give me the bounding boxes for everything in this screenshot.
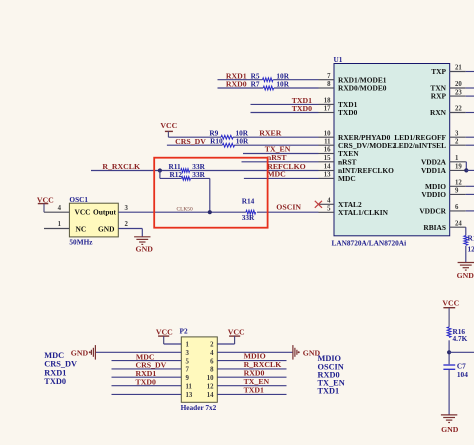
net label RXD1 [226, 71, 247, 80]
svg-text:CRS_DV: CRS_DV [44, 360, 77, 369]
svg-text:16: 16 [324, 147, 331, 154]
net label TX_EN [265, 145, 291, 154]
svg-text:6: 6 [210, 358, 214, 365]
svg-text:LAN8720A/LAN8720Ai: LAN8720A/LAN8720Ai [332, 239, 407, 248]
U1 right pin stubs [450, 72, 466, 228]
svg-text:TXD1: TXD1 [244, 385, 264, 394]
U1 right pin numbers [455, 65, 462, 228]
svg-text:7: 7 [327, 73, 331, 80]
wire R16 to junction [448, 340, 450, 364]
svg-text:1: 1 [186, 342, 190, 349]
net label RXD1 (header) [136, 369, 157, 378]
resistor R12 [170, 170, 206, 180]
svg-text:CRS_DV: CRS_DV [175, 137, 206, 146]
wire nRST to pin 15 [242, 161, 319, 163]
U1 right pin names [394, 67, 447, 232]
connector P2 body (Header 7x2) [181, 337, 217, 402]
svg-text:RXD0: RXD0 [226, 80, 247, 89]
svg-text:3: 3 [125, 205, 129, 212]
svg-text:nRST: nRST [267, 153, 287, 162]
net label nRST [267, 153, 287, 162]
junction node MDIO pullup [447, 350, 451, 354]
ground port (header left) [71, 345, 96, 360]
OSC1 pin 2 wire to GND [118, 229, 142, 237]
wire TX_EN to pin 16 [243, 153, 319, 155]
power port VCC (left of OSC1) [37, 195, 54, 212]
wire pin 20 TXN tail [466, 87, 474, 89]
wire pin 2 LED2 tail [466, 144, 474, 146]
wire pin 23 RXP tail [466, 95, 474, 97]
wire VDD1A tail [466, 169, 474, 171]
wire TX_EN to P2 pin 12 [217, 385, 286, 387]
power port VCC (bottom right) [442, 299, 459, 327]
svg-text:VCC: VCC [160, 121, 177, 130]
svg-text:TXD0: TXD0 [44, 377, 66, 386]
svg-text:1: 1 [58, 221, 62, 228]
svg-text:33R: 33R [192, 170, 205, 179]
OSC1 pin 4 stub [44, 211, 69, 213]
wire C7 to GND [448, 369, 450, 414]
svg-text:U1: U1 [334, 55, 343, 64]
svg-text:18: 18 [324, 98, 331, 105]
svg-text:VDDIO: VDDIO [421, 190, 446, 199]
net label MDIO (header) [244, 351, 266, 360]
svg-text:RXN: RXN [430, 108, 447, 117]
svg-text:6: 6 [455, 204, 459, 211]
svg-text:OSCIN: OSCIN [276, 202, 301, 211]
svg-text:12K: 12K [468, 245, 474, 254]
wire pin 12 MDIO tail [466, 185, 474, 187]
svg-text:R14: R14 [242, 196, 255, 205]
net label TXD1 (header) [244, 385, 264, 394]
net label MDC [267, 170, 286, 179]
ground (C7 column) [441, 415, 459, 434]
svg-text:4: 4 [210, 350, 214, 357]
U1 left pin numbers [324, 73, 331, 213]
resistor R5 [251, 71, 290, 81]
net label RXER [259, 129, 281, 138]
svg-text:GND: GND [71, 348, 89, 357]
wire pin 6 VDDCR tail [466, 210, 474, 212]
svg-text:VDD1A: VDD1A [421, 166, 447, 175]
svg-text:2: 2 [125, 221, 129, 228]
wire RXER to pin 10 [168, 136, 318, 138]
net label CLK50 [177, 207, 193, 213]
wire junction to right edge [449, 351, 474, 353]
highlight box (red) [154, 158, 267, 228]
wire TXD1 to P2 pin 14 [217, 393, 286, 395]
svg-text:21: 21 [455, 65, 462, 72]
net label R_RXCLK [102, 162, 140, 171]
svg-text:CLK50: CLK50 [177, 207, 193, 213]
svg-text:GND: GND [457, 271, 474, 280]
net label OSCIN [276, 202, 301, 211]
wire TXD1 to pin 18 [251, 103, 319, 105]
no-connect X on pin 4 XTAL2 [315, 201, 322, 208]
P2 value label [181, 403, 217, 412]
P2 designator label [180, 327, 188, 336]
svg-text:TXP: TXP [431, 67, 446, 76]
svg-text:nRST: nRST [338, 157, 357, 166]
power port VCC (header left) [156, 327, 173, 336]
net label REFCLKO [267, 162, 306, 171]
svg-text:RXP: RXP [431, 92, 447, 101]
svg-text:104: 104 [457, 370, 468, 379]
ground (RBIAS) [457, 263, 474, 281]
svg-text:4.7K: 4.7K [453, 334, 468, 343]
svg-text:OSC1: OSC1 [69, 195, 88, 204]
net label RXD0 (header) [244, 368, 265, 377]
svg-text:17: 17 [324, 106, 331, 113]
U1 part name label [332, 239, 407, 248]
wire GND port to P2 pin 3 [96, 351, 181, 353]
junction node at R_RXCLK split [158, 168, 162, 172]
svg-text:1: 1 [455, 155, 459, 162]
resistor R16 [447, 327, 467, 343]
oscillator OSC1 body [69, 203, 118, 237]
svg-text:13: 13 [324, 172, 331, 179]
svg-text:GND: GND [441, 425, 459, 434]
op-amp U1 body (LAN8720A PHY IC) [334, 64, 450, 236]
svg-text:TXD0: TXD0 [292, 104, 312, 113]
wire pin 3 LED1 tail [466, 136, 474, 138]
wire MDC to P2 pin 5 [112, 360, 182, 362]
wire RXD1 to P2 pin 9 [112, 376, 182, 378]
svg-text:12: 12 [207, 383, 214, 390]
svg-text:MDC: MDC [338, 174, 356, 183]
net label CRS_DV (header) [136, 361, 167, 370]
resistor R10 [210, 137, 249, 147]
power port VCC (above R9) [160, 121, 177, 137]
svg-text:23: 23 [455, 89, 462, 96]
wire split down to R12 [159, 171, 161, 179]
net label TX_EN (header) [244, 377, 270, 386]
svg-text:10R: 10R [236, 137, 249, 146]
wire CRS_DV to P2 pin 7 [112, 368, 182, 370]
svg-text:GND: GND [98, 225, 114, 234]
svg-text:13: 13 [186, 392, 193, 399]
wire pin 21 TXP tail [466, 71, 474, 73]
svg-text:14: 14 [207, 392, 214, 399]
wire P2 pin 4 to ground port [217, 351, 292, 353]
net label CRS_DV [175, 137, 206, 146]
svg-text:RBIAS: RBIAS [423, 223, 446, 232]
svg-text:VCC: VCC [156, 327, 173, 336]
svg-text:22: 22 [455, 106, 462, 113]
svg-text:MDC: MDC [267, 170, 286, 179]
svg-text:4: 4 [58, 205, 62, 212]
node list left (floating labels) [44, 351, 77, 386]
wire VDD2A to VDD1A join [465, 162, 468, 171]
ground (OSC1) [134, 237, 153, 254]
svg-text:7: 7 [186, 367, 190, 374]
wire TXD0 to pin 17 [251, 112, 319, 114]
svg-text:10: 10 [207, 375, 214, 382]
P2 pin numbers [186, 342, 193, 400]
svg-text:R_RXCLK: R_RXCLK [102, 162, 140, 171]
wire P2 pin 13 [112, 393, 182, 395]
svg-text:Output: Output [93, 207, 117, 216]
wire TXD0 to P2 pin 11 [112, 385, 182, 387]
junction node CLK50 [208, 210, 212, 214]
wire VCC to P2 pin 1 [164, 336, 182, 344]
svg-text:NC: NC [76, 225, 87, 234]
svg-text:20: 20 [455, 81, 462, 88]
svg-text:VCC: VCC [228, 327, 245, 336]
resistor R9 [209, 129, 248, 140]
svg-text:RXER: RXER [259, 129, 281, 138]
wire CRS_DV to pin 11 [167, 144, 319, 146]
svg-text:VDDCR: VDDCR [419, 207, 446, 216]
svg-text:15: 15 [324, 155, 331, 162]
net label TXD1 [292, 96, 312, 105]
resistor R11 [169, 162, 206, 172]
wire RXD1 to pin 7 [218, 79, 319, 81]
svg-text:P2: P2 [180, 327, 188, 336]
U1 designator label [334, 55, 343, 64]
OSC1 value label 50MHz [69, 238, 93, 247]
wire pin 9 VDDIO tail [466, 193, 474, 195]
svg-text:VCC: VCC [75, 207, 91, 216]
svg-text:12: 12 [455, 180, 462, 187]
svg-text:3: 3 [455, 130, 459, 137]
svg-text:R7: R7 [251, 80, 260, 89]
svg-text:XTAL1/CLKIN: XTAL1/CLKIN [338, 208, 389, 217]
svg-text:11: 11 [186, 383, 193, 390]
svg-text:R10: R10 [210, 137, 223, 146]
svg-text:R12: R12 [170, 170, 183, 179]
svg-text:3: 3 [186, 350, 190, 357]
net label MDC (header) [136, 352, 155, 361]
wire R_RXCLK / REFCLKO to pin 14 [91, 170, 319, 172]
svg-text:9: 9 [455, 188, 459, 195]
resistor R15 (12K, clipped at edge) [464, 234, 474, 254]
resistor R14 [242, 196, 256, 222]
wire R_RXCLK to P2 pin 8 [217, 368, 286, 370]
wire RXD0 to pin 8 [218, 87, 319, 89]
svg-text:Header 7x2: Header 7x2 [181, 403, 217, 412]
svg-text:5: 5 [327, 206, 331, 213]
junction node VDD1A [464, 168, 468, 172]
svg-text:TXD1: TXD1 [318, 387, 340, 396]
net label TXD0 [292, 104, 312, 113]
svg-text:14: 14 [324, 164, 331, 171]
OSC1 pin numbers [58, 205, 62, 228]
resistor R7 [251, 80, 290, 90]
svg-text:5: 5 [186, 358, 190, 365]
wire MDC to pin 13 [244, 177, 319, 179]
svg-text:RXD1: RXD1 [44, 368, 66, 377]
svg-text:11: 11 [324, 138, 331, 145]
net label R_RXCLK (header) [244, 360, 282, 369]
capacitor C7 [443, 361, 468, 379]
U1 left pin stubs [319, 80, 335, 213]
power port VCC (header right) [228, 327, 245, 336]
wire MDIO to P2 pin 6 [217, 360, 286, 362]
svg-text:TXD0: TXD0 [338, 108, 358, 117]
svg-text:9: 9 [186, 375, 190, 382]
wire RBIAS down to R15 [465, 227, 467, 262]
svg-text:50MHz: 50MHz [69, 238, 93, 247]
svg-text:2: 2 [455, 138, 459, 145]
wire pin 22 RXN tail [466, 112, 474, 114]
U1 left pin names [338, 75, 396, 217]
svg-text:VCC: VCC [442, 299, 459, 308]
svg-text:8: 8 [210, 367, 214, 374]
svg-text:LED2/nINTSEL: LED2/nINTSEL [394, 141, 446, 150]
net label TXD0 (header) [136, 378, 156, 387]
svg-text:R15: R15 [468, 234, 474, 243]
svg-text:RXD0/MODE0: RXD0/MODE0 [338, 84, 387, 93]
wire VCC to P2 pin 2 [217, 336, 234, 344]
wire OSC1 output CLK50 to R14 [118, 211, 318, 213]
wire through R12 [160, 178, 210, 212]
ground port (header right) [293, 345, 321, 360]
svg-text:TXD0: TXD0 [136, 378, 156, 387]
net label RXD0 [226, 80, 247, 89]
svg-text:2: 2 [210, 342, 214, 349]
OSC1 pin 1 stub (NC) [44, 228, 69, 230]
svg-text:GND: GND [136, 244, 154, 253]
svg-text:10R: 10R [276, 80, 289, 89]
svg-text:8: 8 [327, 81, 331, 88]
svg-text:19: 19 [455, 164, 462, 171]
wire RXD0 to P2 pin 10 [217, 376, 286, 378]
svg-text:4: 4 [327, 198, 331, 205]
OSC1 designator label [69, 195, 88, 204]
svg-text:33R: 33R [242, 213, 255, 222]
svg-text:24: 24 [455, 220, 462, 227]
node list right (floating labels) [318, 354, 345, 396]
svg-text:10: 10 [324, 130, 331, 137]
svg-text:MDC: MDC [44, 351, 64, 360]
